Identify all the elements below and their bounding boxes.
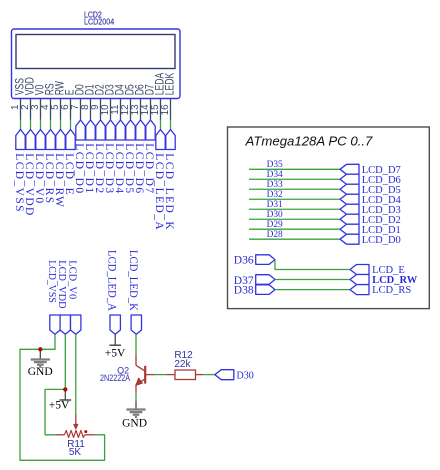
svg-text:LCD_LED_K: LCD_LED_K bbox=[163, 153, 175, 231]
svg-text:D28: D28 bbox=[267, 230, 283, 240]
svg-text:ATmega128A PC 0..7: ATmega128A PC 0..7 bbox=[245, 134, 373, 149]
svg-text:D31: D31 bbox=[267, 200, 283, 210]
svg-text:+5V: +5V bbox=[105, 348, 126, 360]
svg-text:5K: 5K bbox=[69, 447, 82, 458]
svg-text:D33: D33 bbox=[267, 180, 283, 190]
svg-text:LCD_D0: LCD_D0 bbox=[362, 235, 401, 246]
svg-text:D35: D35 bbox=[267, 160, 283, 170]
svg-text:LCD_LED_K: LCD_LED_K bbox=[127, 250, 139, 312]
svg-text:16: 16 bbox=[160, 105, 171, 116]
svg-text:D34: D34 bbox=[267, 170, 283, 180]
svg-text:D32: D32 bbox=[267, 190, 283, 200]
svg-text:LEDK: LEDK bbox=[164, 73, 177, 96]
svg-text:GND: GND bbox=[122, 418, 147, 430]
svg-text:LCD_LED_A: LCD_LED_A bbox=[106, 250, 118, 312]
svg-text:22k: 22k bbox=[174, 359, 191, 370]
svg-text:D38: D38 bbox=[234, 285, 254, 297]
svg-text:LCD_VDD: LCD_VDD bbox=[56, 260, 68, 308]
svg-text:D30: D30 bbox=[267, 210, 283, 220]
svg-text:D36: D36 bbox=[234, 254, 254, 266]
svg-text:LCD_VSS: LCD_VSS bbox=[46, 260, 58, 303]
svg-text:+5V: +5V bbox=[49, 399, 70, 411]
svg-text:LCD2004: LCD2004 bbox=[84, 17, 114, 27]
svg-text:2N2222A: 2N2222A bbox=[100, 373, 130, 383]
svg-text:D29: D29 bbox=[267, 220, 283, 230]
svg-text:LCD_RS: LCD_RS bbox=[372, 285, 411, 296]
svg-text:D30: D30 bbox=[237, 371, 254, 382]
svg-text:GND: GND bbox=[28, 366, 53, 378]
svg-text:LCD_V0: LCD_V0 bbox=[67, 260, 79, 299]
